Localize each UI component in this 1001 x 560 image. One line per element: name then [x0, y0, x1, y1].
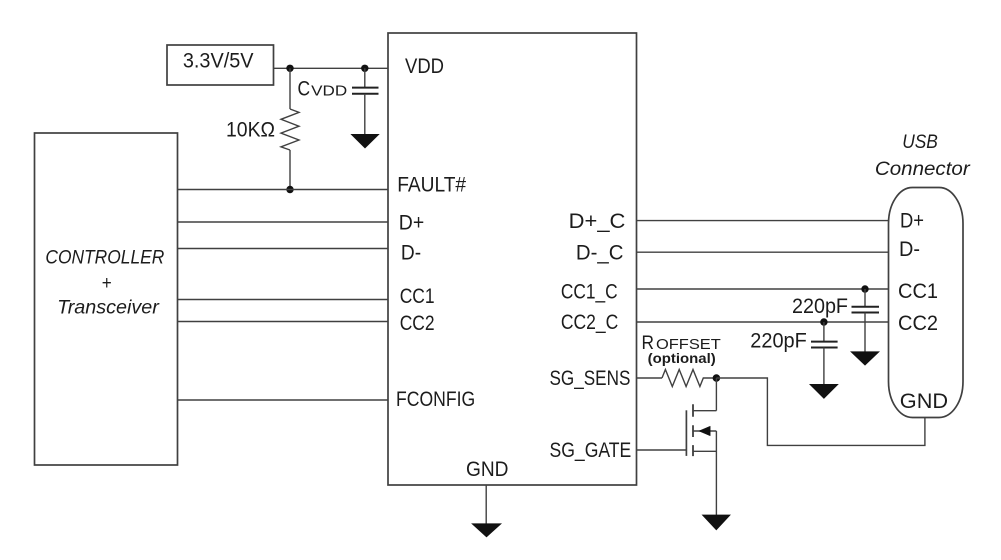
svg-text:D+: D+ [399, 212, 424, 235]
transistor Q1 (NMOS) [686, 404, 716, 456]
wire SG_GATE [637, 449, 687, 451]
svg-text:VDD: VDD [311, 84, 347, 100]
wire D-_C [637, 251, 889, 253]
svg-text:D+_C: D+_C [569, 210, 626, 233]
node J1 supply/resistor [286, 65, 293, 72]
svg-text:Transceiver: Transceiver [57, 297, 160, 319]
svg-text:D+: D+ [900, 209, 924, 232]
svg-text:SG_GATE: SG_GATE [550, 439, 632, 462]
node J4 CC1/C1 [861, 285, 868, 292]
svg-text:3.3V/5V: 3.3V/5V [183, 49, 254, 72]
wire D+_C [637, 220, 889, 222]
svg-text:FAULT#: FAULT# [397, 173, 466, 196]
svg-text:D-: D- [401, 242, 421, 265]
node J2 supply/capacitor [361, 65, 368, 72]
resistor R_OFFSET (horizontal zigzag) [662, 370, 716, 387]
wire D+ [178, 221, 389, 223]
svg-text:10KΩ: 10KΩ [226, 119, 275, 142]
svg-text:CC2: CC2 [898, 312, 938, 335]
svg-text:Connector: Connector [875, 158, 971, 180]
svg-text:D-_C: D-_C [576, 242, 624, 265]
ground arrow Q1 [703, 515, 730, 530]
power source box 3.3V/5V [167, 45, 274, 85]
ground arrow IC GND [472, 524, 500, 537]
svg-text:220pF: 220pF [750, 330, 807, 353]
wire FAULT# [178, 189, 389, 191]
label USB Connector title [875, 131, 971, 180]
svg-text:D-: D- [899, 238, 920, 261]
wire CC2_C [637, 321, 889, 323]
capacitor C_VDD [352, 68, 379, 135]
svg-text:(optional): (optional) [648, 350, 716, 366]
ground arrow C_VDD [352, 135, 379, 148]
svg-text:CC1: CC1 [898, 280, 938, 303]
svg-text:GND: GND [900, 390, 948, 413]
node J3 resistor/FAULT# [286, 186, 293, 193]
node J5 CC2/C2 [820, 318, 827, 325]
svg-text:FCONFIG: FCONFIG [396, 388, 475, 411]
wire source to ground [715, 431, 717, 516]
wire D- [178, 248, 389, 250]
svg-text:CC2_C: CC2_C [561, 311, 618, 334]
wire resistor bottom [289, 150, 291, 190]
svg-text:VDD: VDD [405, 55, 444, 78]
svg-text:CC1: CC1 [400, 285, 435, 308]
wire CC2 [178, 321, 389, 323]
ground arrow C1 [851, 352, 878, 365]
IC box U1 [388, 33, 637, 485]
wire resistor top [289, 68, 291, 109]
ground arrow C2 [810, 385, 837, 399]
label C_VDD [298, 78, 348, 101]
svg-text:+: + [102, 272, 112, 294]
wire SG_SENS [637, 377, 663, 379]
wire drain [715, 378, 717, 411]
node J6 SG_SENS/drain [713, 374, 721, 382]
capacitor C2 220pF [811, 322, 838, 385]
svg-text:CONTROLLER: CONTROLLER [45, 246, 164, 268]
capacitor C1 220pF [852, 289, 880, 352]
wire CC1_C [637, 288, 889, 290]
wire VDD supply [274, 67, 389, 69]
svg-text:CC2: CC2 [400, 312, 435, 335]
USB connector body [889, 188, 964, 418]
resistor R1 10KOhm (vertical zigzag) [281, 109, 299, 150]
controller box [35, 133, 178, 465]
svg-text:220pF: 220pF [792, 295, 848, 318]
svg-text:GND: GND [466, 458, 509, 481]
svg-text:CC1_C: CC1_C [561, 280, 618, 303]
svg-text:USB: USB [902, 131, 938, 153]
wire GND down from IC [485, 485, 487, 524]
wire ground return to USB GND [716, 378, 925, 445]
svg-text:C: C [298, 78, 311, 101]
wire FCONFIG [178, 399, 389, 401]
wire CC1 [178, 299, 389, 301]
label R_OFFSET [642, 333, 721, 354]
svg-text:SG_SENS: SG_SENS [550, 367, 631, 390]
